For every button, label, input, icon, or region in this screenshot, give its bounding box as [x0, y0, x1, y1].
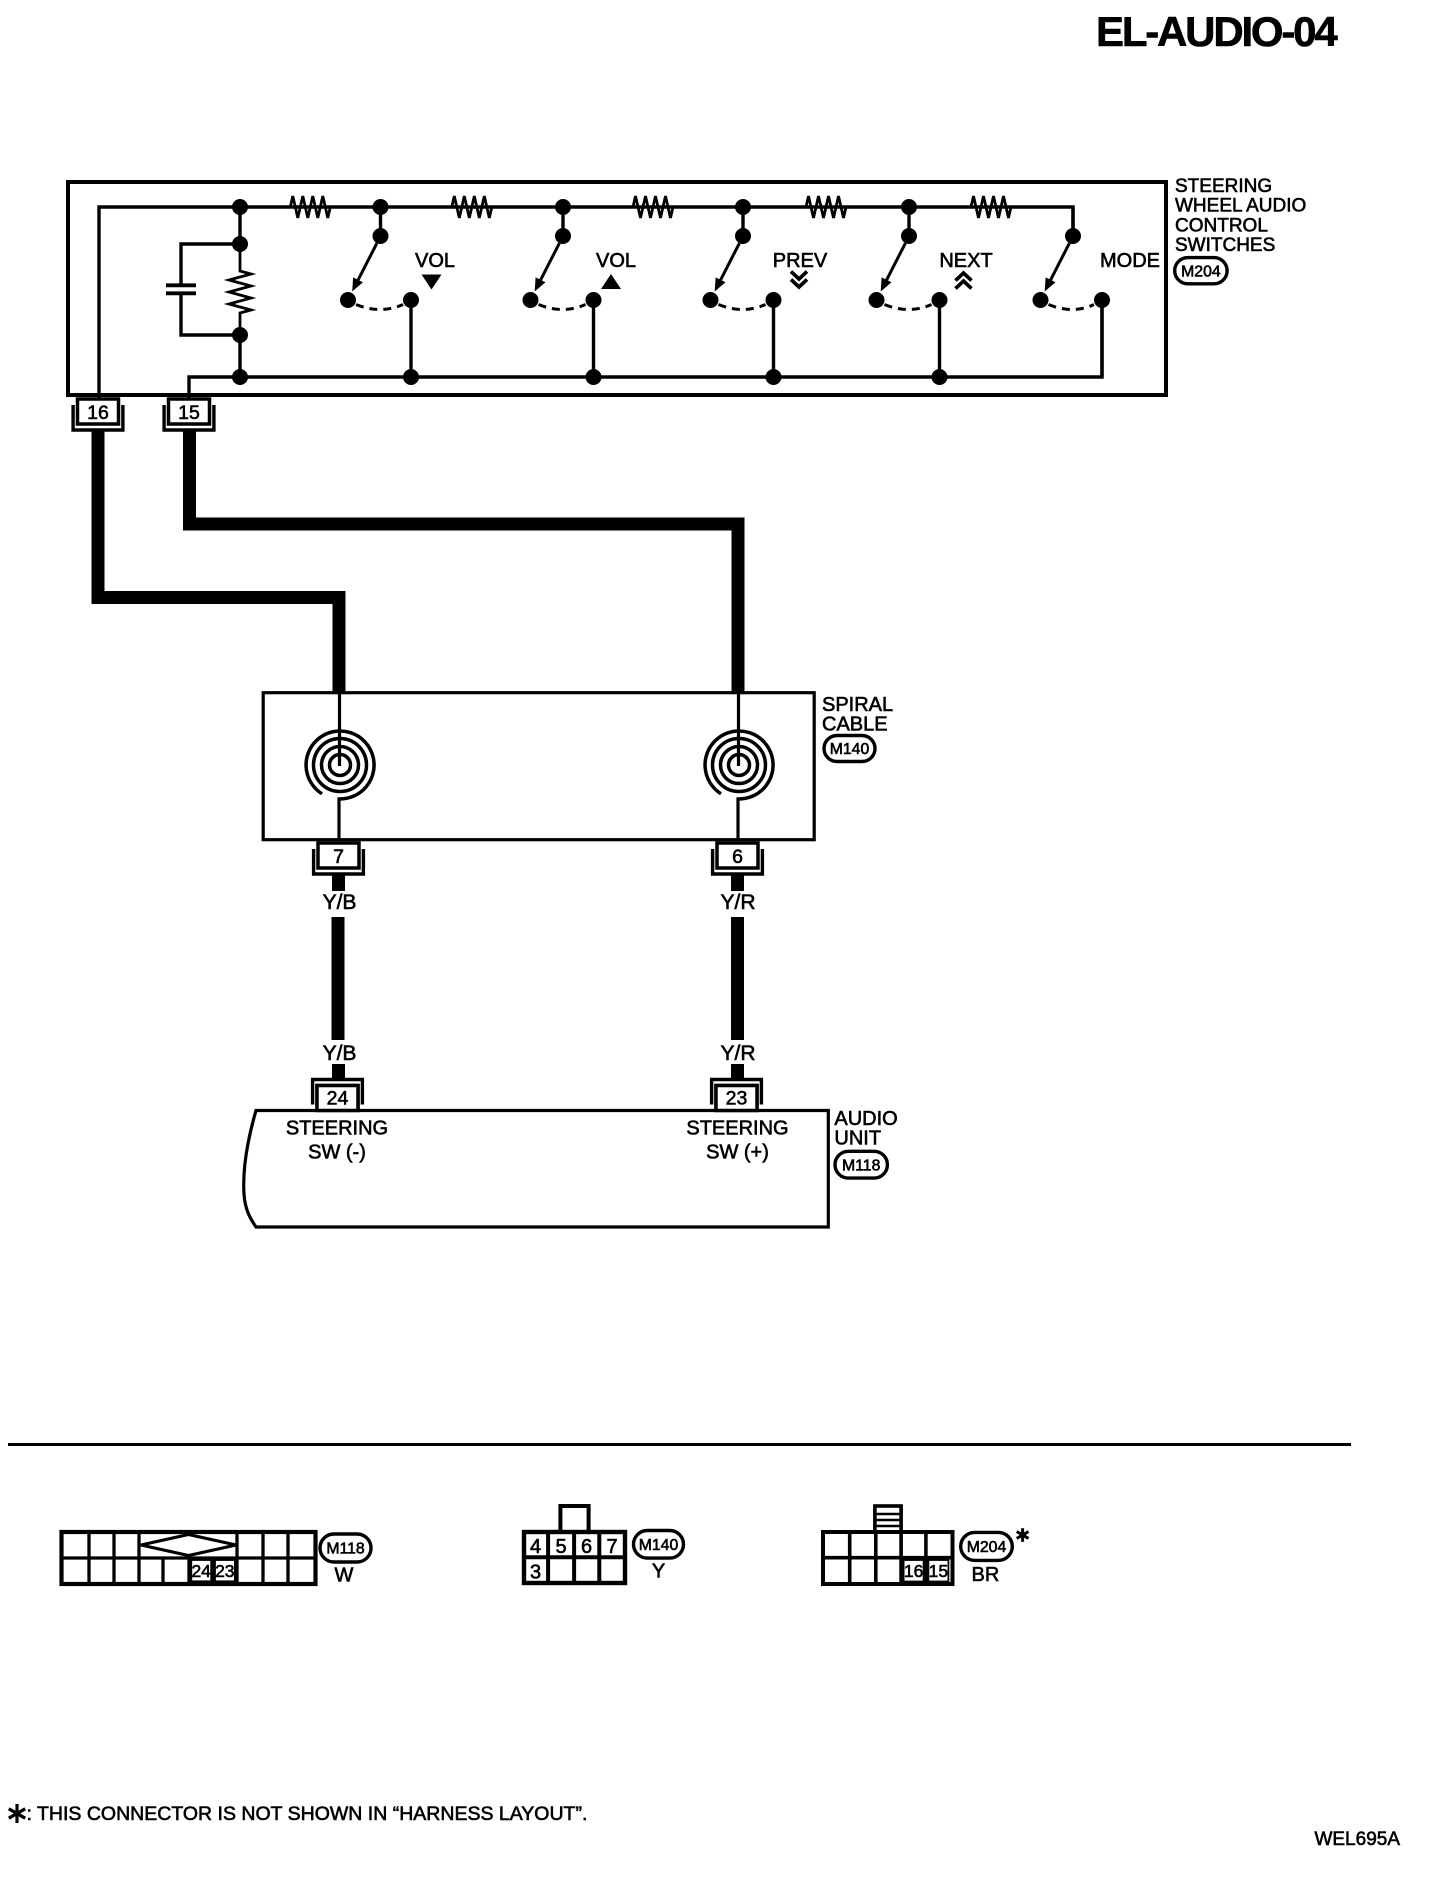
wire stub below pin 7 [332, 873, 345, 891]
svg-text:STEERING: STEERING [1175, 176, 1272, 197]
resistor R3 [633, 196, 673, 218]
svg-text:SW (-): SW (-) [308, 1142, 366, 1164]
svg-text:M118: M118 [326, 1541, 365, 1558]
svg-text:STEERING: STEERING [686, 1118, 788, 1140]
svg-text:M204: M204 [1181, 263, 1221, 280]
wire capacitor branch top [181, 244, 240, 285]
resistor R6 vertical [229, 252, 251, 327]
svg-text:16: 16 [904, 1561, 923, 1581]
wire thick from pin 16 to spiral cable [98, 429, 339, 692]
node on top rail at RC branch [232, 199, 248, 215]
connector pin 24 [313, 1080, 363, 1105]
svg-text:STEERING: STEERING [286, 1118, 388, 1140]
switch S2 VOL up [561, 207, 564, 236]
svg-text:24: 24 [191, 1561, 211, 1581]
connector pin 15 [164, 405, 214, 430]
wire RC branch vertical [238, 207, 241, 252]
connector pin 6 [713, 849, 763, 874]
connector ref M204 oval (face) [961, 1532, 1013, 1560]
switch S5 MODE [1071, 207, 1074, 236]
connector ref M118 oval (face) [320, 1534, 371, 1562]
connector ref M140 oval [824, 736, 875, 762]
connector face M118 cell 23 [215, 1560, 235, 1581]
connector face M204 cell 16 [904, 1560, 924, 1582]
svg-text:CABLE: CABLE [822, 714, 888, 736]
node on bottom rail at RC branch [232, 369, 248, 385]
resistor R4 [806, 196, 846, 218]
svg-text:VOL: VOL [596, 250, 636, 272]
node RC top [232, 236, 248, 252]
connector ref M118 oval [835, 1151, 887, 1178]
svg-text:VOL: VOL [415, 250, 455, 272]
connector ref M140 oval (face) [634, 1531, 684, 1559]
connector face M118 grid [62, 1532, 316, 1584]
svg-text:: THIS CONNECTOR IS NOT SHOWN: : THIS CONNECTOR IS NOT SHOWN IN “HARNES… [27, 1803, 588, 1825]
connector ref M204 oval [1175, 258, 1227, 284]
svg-text:M140: M140 [639, 1537, 679, 1554]
spiral coil right [737, 692, 740, 766]
svg-text:M204: M204 [967, 1539, 1007, 1556]
svg-text:M118: M118 [842, 1157, 881, 1174]
spiral cable box M140 [263, 693, 814, 840]
svg-text:23: 23 [726, 1088, 748, 1110]
svg-text:3: 3 [530, 1562, 541, 1584]
svg-text:SWITCHES: SWITCHES [1175, 235, 1275, 256]
wire bottom rail from pin 15 to MODE contact [189, 300, 1102, 399]
svg-text:M140: M140 [830, 741, 870, 758]
connector face M204 grid [823, 1532, 953, 1584]
connector pin 7 [314, 849, 364, 874]
svg-text:Y: Y [652, 1561, 665, 1583]
switch S4 NEXT [907, 207, 910, 236]
connector face M118 cell 24 [191, 1560, 211, 1581]
svg-text:EL-AUDIO-04: EL-AUDIO-04 [1096, 8, 1338, 55]
svg-text:Y/R: Y/R [720, 891, 755, 914]
svg-text:NEXT: NEXT [939, 250, 992, 272]
wire Y/R main [731, 917, 744, 1040]
connector face M118 keyway diamond [141, 1535, 236, 1556]
connector pin 24 box redraw [317, 1086, 358, 1111]
svg-text:23: 23 [215, 1561, 234, 1581]
svg-text:Y/R: Y/R [720, 1042, 755, 1065]
wire stub above pin 23 [731, 1064, 744, 1081]
svg-text:UNIT: UNIT [834, 1127, 881, 1149]
wire Y/B main [332, 917, 345, 1040]
asterisk mark [1021, 1528, 1024, 1542]
svg-text:WHEEL AUDIO: WHEEL AUDIO [1175, 196, 1306, 217]
svg-text:7: 7 [606, 1536, 617, 1558]
svg-text:7: 7 [333, 846, 344, 868]
connector pin 16 [73, 405, 123, 430]
svg-text:MODE: MODE [1100, 250, 1160, 272]
svg-text:15: 15 [929, 1561, 948, 1581]
resistor R1 [290, 196, 330, 218]
footnote asterisk [15, 1804, 18, 1823]
connector pin 23 box redraw [716, 1086, 757, 1111]
svg-text:15: 15 [178, 402, 200, 424]
connector face M204 tab with stripes [875, 1506, 901, 1532]
connector pin 23 [712, 1080, 762, 1105]
svg-text:WEL695A: WEL695A [1314, 1829, 1400, 1850]
spiral coil left [338, 692, 341, 766]
resistor R2 [452, 196, 492, 218]
wire capacitor branch bottom [181, 293, 240, 335]
svg-text:Y/B: Y/B [323, 1042, 357, 1065]
svg-text:Y/B: Y/B [323, 891, 357, 914]
switch S3 PREV [741, 207, 744, 236]
wire top rail from pin 16 to MODE pivot [99, 207, 1073, 399]
wire stub below pin 6 [731, 873, 744, 891]
svg-text:6: 6 [581, 1536, 592, 1558]
connector face M204 cell 15 [928, 1560, 948, 1582]
svg-text:BR: BR [972, 1564, 1000, 1586]
svg-text:SW (+): SW (+) [706, 1142, 769, 1164]
svg-text:CONTROL: CONTROL [1175, 215, 1268, 236]
svg-text:6: 6 [732, 846, 743, 868]
svg-text:PREV: PREV [773, 250, 828, 272]
svg-text:4: 4 [530, 1536, 541, 1558]
node RC bottom [232, 327, 248, 343]
switch S1 VOL down [379, 207, 382, 236]
audio unit box [244, 1111, 829, 1228]
capacitor C1 [166, 283, 196, 287]
wire thick from pin 15 to spiral cable [190, 429, 739, 692]
svg-text:5: 5 [555, 1536, 566, 1558]
wire RC to bottom rail [238, 335, 241, 377]
svg-text:24: 24 [327, 1088, 349, 1110]
connector face M140 tab [560, 1506, 588, 1532]
wire stub above pin 24 [332, 1064, 345, 1081]
steering wheel audio control switches block box [68, 182, 1166, 395]
svg-text:W: W [335, 1565, 354, 1587]
svg-text:16: 16 [87, 402, 109, 424]
connector face M140 grid [524, 1532, 625, 1583]
resistor R5 [971, 196, 1011, 218]
separator line [8, 1443, 1351, 1446]
